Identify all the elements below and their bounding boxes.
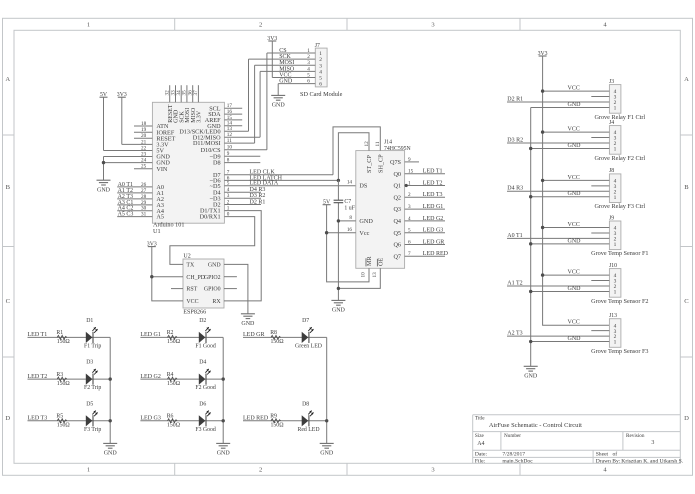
wire J14 OE to ground column (338, 268, 380, 288)
wire net A1 T2 to J10 pin 2 (507, 285, 609, 287)
U2 GPIO0 stub (224, 288, 237, 290)
svg-text:1: 1 (614, 106, 617, 112)
junction U1 GND pin 24 (102, 161, 105, 164)
svg-text:OE: OE (378, 258, 385, 266)
svg-text:LED RED: LED RED (243, 416, 269, 422)
svg-text:J9: J9 (609, 215, 614, 221)
led D1 F1 Trip (84, 318, 101, 349)
junction VCC bus at J8 (541, 179, 544, 182)
svg-text:1: 1 (87, 467, 90, 474)
svg-text:VCC: VCC (186, 299, 198, 305)
svg-text:Krisztian K. and Utkarsh S.: Krisztian K. and Utkarsh S. (621, 459, 683, 465)
junction VCC bus at J9 (541, 226, 544, 229)
svg-text:A: A (684, 76, 689, 83)
wire U1 D0/RX1 to U2 TX (170, 217, 255, 265)
svg-text:D1: D1 (86, 318, 93, 324)
svg-text:23: 23 (141, 151, 147, 157)
junction led column 2 at y=379.1 (222, 377, 225, 380)
arduino U1 designator labels (153, 221, 184, 235)
U1 pin 7 D7 (213, 170, 333, 179)
svg-text:AirFuse Schematic - Control Ci: AirFuse Schematic - Control Circuit (489, 422, 582, 429)
J9 pin 3 stub (591, 232, 609, 234)
svg-text:D2 R1: D2 R1 (250, 199, 266, 205)
svg-text:1: 1 (614, 340, 617, 346)
svg-text:LED DATA: LED DATA (250, 181, 279, 187)
junction GND bus (529, 195, 532, 198)
svg-text:B: B (684, 184, 689, 191)
connector J13 body (609, 319, 621, 348)
svg-text:150Ω: 150Ω (57, 339, 71, 345)
wire VCC to J4 pin 4 (543, 131, 610, 133)
svg-text:14: 14 (347, 180, 353, 186)
wire GND to J13 pin 1 (531, 341, 610, 343)
wire VCC to J3 pin 4 (543, 90, 610, 92)
svg-text:Vcc: Vcc (359, 230, 369, 237)
ground below J7 (271, 95, 285, 108)
ground bus column 1 (109, 337, 111, 443)
svg-text:B: B (6, 184, 11, 191)
svg-text:D3: D3 (86, 360, 93, 366)
svg-text:A0 T1: A0 T1 (507, 233, 522, 239)
J14 pin 14 DS (347, 180, 368, 190)
J9 pin numbers (614, 226, 617, 248)
J14 pin 1 Q1 net LED T2 (393, 180, 445, 189)
led D7 Green LED (295, 318, 322, 349)
svg-text:GND: GND (104, 451, 118, 457)
wire net A0 T1 to J9 pin 2 (507, 237, 609, 239)
svg-text:7/28/2017: 7/28/2017 (502, 452, 525, 458)
J14 top pin labels ST_CP SH_CP (364, 141, 385, 173)
U1 pin 26 A0 (117, 182, 164, 191)
svg-text:J3: J3 (609, 79, 614, 85)
J3 pin 3 stub (591, 96, 609, 98)
svg-text:Title: Title (475, 415, 485, 421)
svg-text:Number: Number (504, 433, 521, 439)
wire LED LATCH to J14 ST_CP (338, 133, 369, 181)
U1 pin 23 GND (104, 151, 171, 160)
wire VCC to J10 pin 4 (543, 274, 610, 276)
svg-text:11: 11 (227, 138, 232, 144)
J7 pin 5 net VCC (272, 72, 322, 81)
U1 pin 15 AREF (205, 115, 242, 124)
svg-text:Size: Size (475, 433, 485, 439)
svg-text:Grove Relay F2 Ctrl: Grove Relay F2 Ctrl (594, 155, 645, 162)
svg-text:C7: C7 (344, 199, 351, 205)
svg-text:RX: RX (212, 299, 221, 305)
J14 pin 1 marker dot (405, 184, 408, 187)
svg-text:3.3V: 3.3V (197, 110, 203, 123)
ground below J14 (331, 300, 345, 313)
U1 top pin 35 MOSI (182, 85, 191, 123)
U1 pin 17 SCL (209, 103, 242, 112)
U1 top pin 36 MISO (188, 85, 197, 123)
svg-text:1: 1 (614, 147, 617, 153)
J14 pin 6 Q6 net LED GR (393, 239, 445, 248)
J7 pin 1 net CS (267, 48, 322, 57)
J14 pin 3 Q3 net LED G1 (393, 204, 445, 213)
J14 designator labels (384, 140, 412, 152)
svg-text:3: 3 (307, 60, 310, 66)
U1 pin 11 D11/MOSI (193, 138, 255, 147)
U1 pin 1 D1/TX1 (200, 206, 230, 215)
svg-text:Grove Relay F3 Ctrl: Grove Relay F3 Ctrl (594, 203, 645, 210)
svg-text:1: 1 (614, 242, 617, 248)
svg-text:GND: GND (217, 451, 231, 457)
svg-text:GND: GND (279, 79, 293, 85)
wire 3V3 to J7 VCC (271, 41, 273, 78)
connector J4 body (609, 126, 621, 155)
svg-text:Q7: Q7 (393, 253, 401, 260)
power 5V at C7 (323, 200, 331, 206)
U1 pin 6 ~D6 (210, 175, 339, 184)
U1 pin 30 A4 (117, 206, 164, 215)
wire net LED T1 row (28, 336, 111, 338)
svg-text:D3 R2: D3 R2 (507, 137, 523, 143)
svg-text:GPIO2: GPIO2 (204, 275, 221, 281)
svg-text:TX: TX (186, 263, 195, 269)
J7 pin 6 net GND (278, 79, 322, 88)
svg-text:20: 20 (141, 133, 147, 139)
power 5V at U1 (100, 92, 108, 98)
U1 pin 9 ~D9 (210, 151, 261, 160)
svg-text:3: 3 (408, 204, 411, 210)
U1 pin 19 IOREF (134, 127, 175, 136)
svg-text:D2: D2 (199, 318, 206, 324)
svg-text:D: D (5, 415, 10, 422)
svg-text:Q3: Q3 (393, 206, 401, 213)
junction led column 1 at y=379.1 (109, 377, 112, 380)
U1 top pin 34 SCK (176, 85, 185, 123)
svg-text:4: 4 (319, 70, 322, 76)
U1 pin 24 GND (104, 158, 171, 167)
wire net LED GR row (243, 336, 327, 338)
junction OE ground column (337, 287, 340, 290)
U1 top pin 33 GND (170, 85, 179, 123)
svg-text:MOSI: MOSI (279, 60, 294, 66)
svg-text:J4: J4 (609, 120, 614, 126)
J7 pin 3 net MOSI (255, 60, 323, 69)
svg-text:J8: J8 (609, 168, 614, 174)
svg-text:1: 1 (307, 48, 310, 54)
svg-text:4: 4 (307, 66, 310, 72)
svg-text:R6: R6 (167, 414, 174, 420)
svg-text:13: 13 (372, 272, 378, 278)
shift register J14 body (356, 151, 405, 269)
svg-text:Grove Temp Sensor F3: Grove Temp Sensor F3 (591, 348, 648, 355)
U1 pin 31 A5 (117, 212, 164, 221)
svg-text:A5 C3: A5 C3 (118, 212, 134, 218)
junction GND bus (529, 242, 532, 245)
svg-text:VCC: VCC (279, 72, 291, 78)
wire MISO bus J7 to U1 D12 (259, 71, 261, 137)
wire 5V to U1 pin 22 (103, 97, 105, 150)
J13 pin 3 stub (591, 330, 609, 332)
J14 pin 9 Q7S (390, 157, 419, 166)
svg-text:10: 10 (361, 272, 367, 278)
wire 5V to J14 Vcc and MR (327, 205, 369, 282)
svg-text:6: 6 (319, 82, 322, 88)
svg-text:CS: CS (279, 48, 286, 54)
svg-text:Grove Temp Sensor F1: Grove Temp Sensor F1 (591, 250, 648, 257)
svg-text:MISO: MISO (279, 66, 295, 72)
svg-text:GND: GND (359, 218, 373, 225)
J14 pin 15 Q0 net LED T1 (393, 169, 445, 178)
svg-text:GND: GND (524, 374, 538, 380)
junction 3V3 CH_PD (150, 275, 153, 278)
svg-text:1: 1 (614, 290, 617, 296)
svg-text:D7: D7 (302, 318, 309, 324)
svg-text:Sheet: Sheet (596, 452, 609, 458)
svg-text:MR: MR (366, 255, 373, 266)
U1 pin 12 D12/MISO (193, 132, 260, 141)
wire GND to J4 pin 1 (531, 147, 610, 149)
J14 pin 2 Q2 net LED T3 (393, 192, 445, 201)
svg-text:1: 1 (319, 51, 322, 57)
svg-text:4: 4 (227, 187, 230, 193)
svg-text:6: 6 (408, 239, 411, 245)
svg-text:GND: GND (332, 308, 346, 314)
svg-text:8: 8 (349, 215, 352, 221)
svg-text:VCC: VCC (568, 270, 580, 276)
svg-text:J10: J10 (609, 263, 617, 269)
junction VCC bus at J4 (541, 130, 544, 133)
svg-text:37: 37 (193, 90, 199, 96)
svg-text:VCC: VCC (568, 320, 580, 326)
svg-text:2: 2 (227, 199, 230, 205)
wire GND to J10 pin 1 (531, 290, 610, 292)
U1 pin 18 ATN (134, 121, 169, 130)
resistor R3 150 ohm (56, 372, 70, 387)
svg-text:19: 19 (141, 127, 147, 133)
U1 top pin 37 3.3V (193, 85, 202, 123)
J10 pin numbers (614, 273, 617, 295)
svg-text:Green LED: Green LED (295, 343, 322, 349)
capacitor C7 (334, 199, 356, 211)
resistor R9 150 ohm (270, 414, 284, 429)
svg-text:D4 R3: D4 R3 (507, 186, 523, 192)
svg-text:C: C (6, 298, 11, 305)
ground below led column 2 (216, 443, 230, 456)
svg-text:Date:: Date: (475, 452, 488, 458)
svg-text:R8: R8 (270, 330, 277, 336)
wire net LED G1 row (140, 336, 223, 338)
svg-text:R1: R1 (56, 330, 63, 336)
svg-text:GND: GND (241, 321, 255, 327)
resistor R4 150 ohm (167, 372, 181, 387)
J8 pin numbers (614, 179, 617, 201)
svg-text:D6: D6 (199, 401, 206, 407)
junction led column 3 at y=420.8 (325, 419, 328, 422)
svg-text:LED G3: LED G3 (140, 416, 161, 422)
svg-text:R9: R9 (270, 414, 277, 420)
svg-text:U2: U2 (183, 253, 190, 259)
wire net A2 T3 to J13 pin 2 (507, 335, 609, 337)
U1 pin 13 D13/SCK/LED0 (179, 126, 248, 135)
svg-text:VIN: VIN (156, 166, 168, 173)
U1 pin 14 GND (207, 121, 242, 130)
svg-text:D8: D8 (302, 401, 309, 407)
J14 pin 5 Q5 net LED G3 (393, 228, 445, 237)
junction led column 2 at y=420.8 (222, 419, 225, 422)
svg-text:R2: R2 (167, 330, 174, 336)
resistor R5 150 ohm (56, 414, 70, 429)
U1 pin 20 RESET (134, 133, 176, 142)
svg-text:GPIO0: GPIO0 (204, 287, 221, 293)
svg-text:RST: RST (186, 287, 197, 293)
wire MOSI bus J7 to U1 D11 (254, 65, 256, 143)
svg-text:150Ω: 150Ω (57, 423, 71, 429)
svg-text:LED GR: LED GR (423, 239, 445, 245)
svg-text:Drawn By:: Drawn By: (596, 459, 621, 465)
svg-text:LED GR: LED GR (243, 332, 265, 338)
U2 pin labels (186, 263, 221, 306)
wire net LED RED row (243, 420, 327, 422)
connector J7 body (315, 48, 327, 87)
svg-text:GND: GND (568, 191, 582, 197)
svg-text:GND: GND (568, 238, 582, 244)
ground below U2 (241, 314, 255, 327)
svg-text:D0/RX1: D0/RX1 (200, 214, 221, 221)
svg-text:GND: GND (568, 286, 582, 292)
svg-text:J13: J13 (609, 313, 617, 319)
svg-text:150Ω: 150Ω (57, 381, 71, 387)
svg-text:2: 2 (319, 57, 322, 63)
svg-text:VCC: VCC (568, 175, 580, 181)
svg-text:D2 R1: D2 R1 (507, 96, 523, 102)
svg-text:GND: GND (568, 102, 582, 108)
svg-text:31: 31 (141, 212, 147, 218)
wire net LED G3 row (140, 420, 223, 422)
svg-text:F2 Trip: F2 Trip (84, 385, 101, 391)
svg-text:1: 1 (614, 195, 617, 201)
svg-text:J7: J7 (315, 43, 320, 49)
svg-text:R4: R4 (167, 372, 174, 378)
svg-text:F1 Good: F1 Good (195, 343, 216, 349)
wire net D2 R1 to J3 pin 2 (507, 101, 609, 103)
svg-text:F3 Good: F3 Good (195, 427, 216, 433)
svg-text:R5: R5 (56, 414, 63, 420)
junction J14 GND column (337, 219, 340, 222)
wire J7 GND to ground (277, 84, 279, 96)
svg-text:150Ω: 150Ω (167, 381, 181, 387)
svg-text:D4 R3: D4 R3 (250, 187, 266, 193)
svg-text:24: 24 (141, 158, 147, 164)
power 3V3 right bus (538, 51, 548, 57)
wire U1 D1/TX1 to U2 RX (224, 211, 261, 301)
svg-text:D: D (684, 415, 689, 422)
ground below led column 3 (320, 443, 334, 456)
svg-text:Red LED: Red LED (297, 427, 319, 433)
svg-text:25: 25 (141, 164, 147, 170)
svg-text:LED G3: LED G3 (423, 228, 444, 234)
svg-text:3: 3 (319, 63, 322, 69)
ground bus column 3 (326, 337, 328, 443)
power 3V3 at U2 (147, 241, 157, 247)
resistor R1 150 ohm (56, 330, 70, 345)
svg-text:150Ω: 150Ω (167, 423, 181, 429)
svg-text:150Ω: 150Ω (271, 423, 285, 429)
svg-text:A: A (5, 76, 10, 83)
svg-text:CH_PD: CH_PD (186, 275, 205, 281)
svg-text:Q7S: Q7S (390, 159, 402, 166)
resistor R6 150 ohm (167, 414, 181, 429)
led D5 F3 Trip (84, 401, 101, 432)
power 3V3 at J7 (267, 36, 277, 42)
border column dividers (175, 18, 520, 475)
junction VCC bus at J3 (541, 89, 544, 92)
wire U1 GND pins to ground (103, 157, 105, 181)
svg-text:4: 4 (408, 216, 411, 222)
svg-text:9: 9 (408, 157, 411, 163)
wire net LED T2 row (28, 378, 111, 380)
svg-text:GND: GND (320, 451, 334, 457)
title block text (475, 415, 684, 464)
svg-text:2: 2 (307, 54, 310, 60)
J4 pin 3 stub (591, 137, 609, 139)
U1 top pin 32 RESET (165, 85, 174, 123)
wire GND bus vertical right (530, 107, 532, 366)
svg-text:1 uF: 1 uF (344, 206, 355, 212)
junction GND bus (529, 147, 532, 150)
resistor R2 150 ohm (167, 330, 181, 345)
wire net D4 R3 to J8 pin 2 (507, 190, 609, 192)
svg-text:5: 5 (227, 181, 230, 187)
led D4 F2 Good (195, 360, 216, 391)
U2 RST stub (171, 288, 183, 290)
svg-text:LED G1: LED G1 (140, 332, 161, 338)
svg-text:VCC: VCC (568, 86, 580, 92)
U2 GPIO2 stub (224, 276, 237, 278)
svg-text:VCC: VCC (568, 222, 580, 228)
svg-text:A1 T2: A1 T2 (507, 280, 522, 286)
svg-text:D4: D4 (199, 360, 206, 366)
wire U2 GND to ground (224, 264, 248, 313)
svg-text:SCK: SCK (279, 54, 291, 60)
ground bus column 2 (222, 337, 224, 443)
connector J8 body (609, 174, 621, 203)
wire GND to J3 pin 1 (531, 106, 610, 108)
junction GND bus (529, 340, 532, 343)
svg-text:3: 3 (227, 193, 230, 199)
svg-text:SH_CP: SH_CP (378, 154, 385, 173)
svg-text:U1: U1 (153, 228, 161, 235)
svg-text:1: 1 (87, 22, 90, 29)
svg-text:Q4: Q4 (393, 218, 401, 225)
U1 pin 16 SDA (208, 109, 242, 118)
wire VCC to J9 pin 4 (543, 227, 610, 229)
wire GND to J9 pin 1 (531, 243, 610, 245)
J10 pin 3 stub (591, 280, 609, 282)
svg-text:8: 8 (227, 158, 230, 164)
svg-text:GND: GND (568, 336, 582, 342)
U1 pin 0 D0/RX1 (200, 212, 230, 221)
svg-text:D3 R2: D3 R2 (250, 193, 266, 199)
svg-text:2: 2 (408, 192, 411, 198)
svg-text:F3 Trip: F3 Trip (84, 427, 101, 433)
svg-text:LED T2: LED T2 (28, 374, 48, 380)
U1 pin 28 A2 (117, 194, 164, 203)
U1 pin 5 ~D5 (210, 181, 356, 190)
power 3V3 at U1 (117, 92, 127, 98)
J13 pin numbers (614, 323, 617, 345)
junction led column 1 at y=420.8 (109, 419, 112, 422)
svg-text:D8: D8 (213, 160, 221, 167)
svg-text:Q6: Q6 (393, 242, 401, 249)
svg-text:ESP8266: ESP8266 (183, 308, 206, 315)
wire LED CLK to J14 SH_CP (333, 127, 380, 175)
resistor R8 150 ohm (270, 330, 284, 345)
led D8 Red LED (297, 401, 319, 432)
